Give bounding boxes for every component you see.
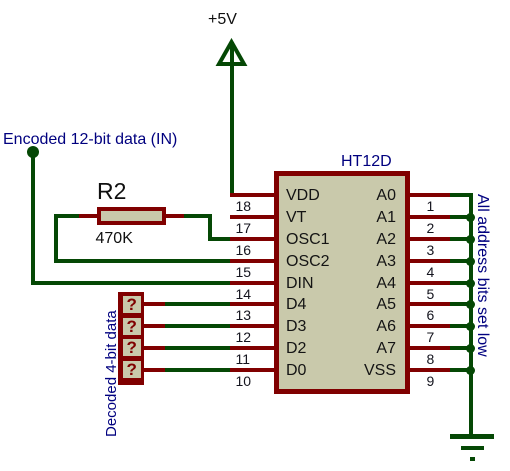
pin 18 VDD xyxy=(230,193,274,197)
junction dot VSS xyxy=(466,366,475,375)
pin 12 D3 xyxy=(230,324,274,328)
pin 13 D4 xyxy=(230,302,274,306)
pin name D0 xyxy=(286,362,306,379)
pin name DIN xyxy=(286,275,314,292)
probe pin D3 xyxy=(144,324,166,328)
probe pin D2 xyxy=(144,346,166,350)
wire R2 right vertical xyxy=(208,214,212,241)
wire VSS stub xyxy=(450,368,473,372)
ground middle bar xyxy=(461,446,485,451)
junction dot A5 xyxy=(466,300,475,309)
logic probe window D3 xyxy=(123,318,141,335)
pin number 14 xyxy=(236,288,252,300)
label Decoded 4-bit data xyxy=(103,310,120,437)
pin number 11 xyxy=(236,353,251,365)
pin number 7 xyxy=(427,331,435,343)
wire A1 stub xyxy=(450,215,473,219)
pin number 16 xyxy=(236,244,252,256)
wire D0 xyxy=(165,368,231,372)
resistor R2 value 470K xyxy=(96,230,133,248)
pin name VDD xyxy=(286,187,320,204)
wire input vertical xyxy=(31,152,35,285)
wire A2 stub xyxy=(450,237,473,241)
wire A7 stub xyxy=(450,346,473,350)
pin number 2 xyxy=(427,222,435,234)
pin name A0 xyxy=(340,187,396,204)
node Encoded 12-bit data (IN) label xyxy=(3,131,177,149)
wire D3 xyxy=(165,324,231,328)
pin name OSC2 xyxy=(286,253,330,270)
pin 16 OSC1 xyxy=(230,237,274,241)
resistor R2 left pin xyxy=(79,214,97,218)
wire A5 stub xyxy=(450,302,473,306)
wire A3 stub xyxy=(450,259,473,263)
logic probe window D0 xyxy=(123,361,141,378)
pin number 12 xyxy=(236,331,252,343)
pin 11 D2 xyxy=(230,346,274,350)
logic probe window D2 xyxy=(123,339,141,356)
wire R2 left stub xyxy=(54,214,80,218)
wire OSC1 horizontal xyxy=(208,237,231,241)
pin 6 A5 xyxy=(410,302,450,306)
wire R2 right stub xyxy=(184,214,212,218)
pin number 17 xyxy=(236,222,252,234)
wire D2 xyxy=(165,346,231,350)
pin 4 A3 xyxy=(410,259,450,263)
pin number 3 xyxy=(427,244,435,256)
IC U1 HT12D body xyxy=(274,171,410,394)
pin 14 DIN xyxy=(230,281,274,285)
resistor R2 body xyxy=(97,207,166,226)
logic probe strip xyxy=(118,292,144,385)
pin 2 A1 xyxy=(410,215,450,219)
wire R2 left vertical xyxy=(54,214,58,263)
pin number 1 xyxy=(427,200,435,212)
probe pin D4 xyxy=(144,302,166,306)
power label +5V xyxy=(208,11,237,29)
pin number 8 xyxy=(427,353,435,365)
ground bottom bar xyxy=(470,457,475,461)
resistor R2 label xyxy=(97,178,126,205)
wire address bus vertical xyxy=(469,193,473,437)
junction dot A3 xyxy=(466,257,475,266)
pin number 18 xyxy=(236,200,252,212)
wire OSC2 horizontal xyxy=(54,259,231,263)
wire A6 stub xyxy=(450,324,473,328)
pin name A7 xyxy=(340,340,396,357)
pin name A2 xyxy=(340,231,396,248)
pin name A3 xyxy=(340,253,396,270)
IC title HT12D xyxy=(341,153,392,171)
junction dot A2 xyxy=(466,235,475,244)
pin 10 D0 xyxy=(230,368,274,372)
wire A0 stub xyxy=(450,193,473,197)
probe pin D0 xyxy=(144,368,166,372)
pin number 5 xyxy=(427,288,435,300)
pin 7 A6 xyxy=(410,324,450,328)
pin number 10 xyxy=(236,375,252,387)
pin number 4 xyxy=(427,266,435,278)
junction dot A1 xyxy=(466,213,475,222)
pin name VT xyxy=(286,209,306,226)
pin 17 VT xyxy=(230,215,274,219)
power symbol +5V arrow xyxy=(210,38,255,68)
node dot input xyxy=(27,146,39,158)
wire +5V vertical to VDD xyxy=(230,42,234,197)
pin name VSS xyxy=(340,362,396,379)
pin 8 A7 xyxy=(410,346,450,350)
resistor R2 right pin xyxy=(166,214,184,218)
pin name D2 xyxy=(286,340,306,357)
pin number 6 xyxy=(427,309,435,321)
wire input horizontal to DIN xyxy=(31,281,231,285)
junction dot A4 xyxy=(466,279,475,288)
wire A4 stub xyxy=(450,281,473,285)
pin number 9 xyxy=(427,375,435,387)
pin name A1 xyxy=(340,209,396,226)
logic probe window D4 xyxy=(123,296,141,313)
pin name D3 xyxy=(286,318,306,335)
junction dot A7 xyxy=(466,344,475,353)
pin 9 VSS xyxy=(410,368,450,372)
ground top bar xyxy=(450,434,495,439)
pin name A6 xyxy=(340,318,396,335)
wire D4 xyxy=(165,302,231,306)
pin 3 A2 xyxy=(410,237,450,241)
pin name D4 xyxy=(286,296,306,313)
pin 15 OSC2 xyxy=(230,259,274,263)
pin 5 A4 xyxy=(410,281,450,285)
pin number 13 xyxy=(236,309,252,321)
pin 1 A0 xyxy=(410,193,450,197)
pin number 15 xyxy=(236,266,252,278)
pin name OSC1 xyxy=(286,231,330,248)
label All address bits set low xyxy=(473,194,491,357)
pin name A5 xyxy=(340,296,396,313)
pin name A4 xyxy=(340,275,396,292)
junction dot A6 xyxy=(466,322,475,331)
